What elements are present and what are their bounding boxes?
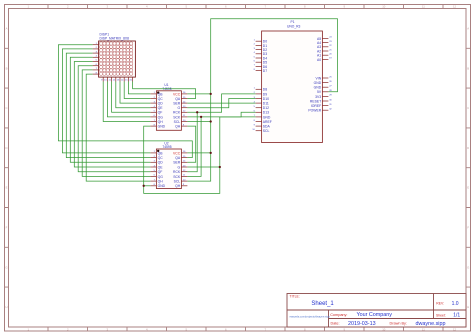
wire DISP1 col4 to U1 QE	[116, 82, 151, 108]
P1 pin 5 stub (D4)	[256, 57, 262, 59]
P1 pin 3 stub (D2)	[256, 49, 262, 51]
svg-text:SCL: SCL	[174, 180, 181, 184]
DISP1 left pin 6 stub	[93, 65, 99, 67]
svg-text:QE: QE	[158, 165, 164, 169]
svg-text:QG: QG	[158, 115, 164, 119]
U2 pin 8 stub (GND)	[150, 185, 156, 187]
U2 pin 3 stub (QD)	[150, 161, 156, 163]
wire U1 VCC to VCC net	[187, 93, 210, 95]
svg-text:D10: D10	[263, 97, 269, 101]
U2 pin 4 stub (QE)	[150, 166, 156, 168]
svg-text:10: 10	[382, 5, 386, 9]
U1 pin 11 stub (SCK)	[181, 116, 187, 118]
P1 pin 26 stub (GND)	[322, 82, 328, 84]
junction GND net at U2 G	[219, 166, 221, 168]
U1 pin 6 stub (QG)	[150, 116, 156, 118]
U1 pin 15 stub (QA)	[181, 98, 187, 100]
svg-text:AREF: AREF	[263, 120, 272, 124]
P1 pin 8 stub (D7)	[256, 70, 262, 72]
shift register U2 74595 body	[156, 149, 181, 189]
svg-text:RESET: RESET	[310, 99, 321, 103]
wire DISP1 col5 to U1 QD	[120, 82, 150, 104]
junction VCC net at U2 VCC	[210, 152, 212, 154]
DISP1 bottom pin 16 stub	[132, 77, 134, 81]
junction RCK net	[196, 111, 198, 113]
U2 pin 6 stub (QG)	[150, 175, 156, 177]
svg-text:2019-03-13: 2019-03-13	[348, 321, 376, 327]
svg-text:QG: QG	[158, 175, 164, 179]
U1 pin 1 marker dot	[157, 92, 159, 94]
svg-text:SDA: SDA	[263, 125, 271, 129]
svg-text:SCL: SCL	[263, 129, 270, 133]
P1 pin 24 stub (A5)	[322, 37, 328, 39]
svg-text:Drawn By:: Drawn By:	[390, 322, 408, 326]
wire SCK net U1 SCK to P1 D13	[187, 112, 255, 117]
svg-text:IOREF: IOREF	[311, 104, 321, 108]
svg-text:1/1: 1/1	[453, 313, 460, 319]
P1 pin 1 stub (D0)	[256, 40, 262, 42]
svg-text:DISP_MATRIX_8X8: DISP_MATRIX_8X8	[100, 36, 130, 40]
svg-text:A: A	[6, 27, 8, 31]
svg-text:GND: GND	[314, 81, 322, 85]
svg-text:74595: 74595	[162, 145, 171, 149]
svg-text:G: G	[178, 165, 181, 169]
P1 pin 6 stub (D13)	[256, 111, 262, 113]
junction VCC net at U1 SCL	[210, 120, 212, 122]
LED matrix DISP1 body	[99, 41, 136, 77]
junction VCC net at U1 VCC	[210, 93, 212, 95]
DISP1 bottom pin 15 stub	[127, 77, 129, 81]
svg-text:A: A	[467, 27, 469, 31]
DISP1 pin numbers	[96, 43, 133, 82]
wire U2 VCC to VCC net	[187, 152, 210, 154]
DISP1 bottom pin 13 stub	[119, 77, 121, 81]
P1 pin 4 stub (D11)	[256, 102, 262, 104]
wire SCK net branch to U2 SCK	[187, 117, 201, 176]
svg-text:D11: D11	[263, 102, 269, 106]
svg-text:VIN: VIN	[316, 76, 322, 80]
DISP1 left pin 2 stub	[93, 48, 99, 50]
U1 pin name and number labels	[154, 92, 186, 128]
P1 pin 5 stub (D12)	[256, 107, 262, 109]
U2 pin 12 stub (RCK)	[181, 171, 187, 173]
P1 pin 28 stub (5V)	[322, 91, 328, 93]
U1 pin 13 stub (G)	[181, 107, 187, 109]
wire U1 SCL to VCC net	[187, 121, 210, 123]
svg-text:D: D	[5, 146, 7, 150]
svg-text:GND: GND	[263, 115, 271, 119]
wire DISP1 row4 to U2 QD	[70, 57, 150, 162]
svg-text:GND: GND	[158, 125, 166, 129]
DISP1 left pin 5 stub	[93, 61, 99, 63]
svg-text:Your Company: Your Company	[357, 312, 393, 318]
svg-text:E: E	[6, 186, 8, 190]
P1 pin 10 stub (SCL)	[256, 130, 262, 132]
wire VCC net: U2 SCL up to 5V loop	[187, 19, 337, 181]
wire U2 GND to GND net	[144, 185, 151, 187]
svg-text:D9: D9	[263, 92, 267, 96]
svg-text:RCK: RCK	[173, 111, 181, 115]
P1 pin 7 stub (D6)	[256, 65, 262, 67]
U2 pin 10 stub (SCL)	[181, 180, 187, 182]
svg-text:3V3: 3V3	[315, 95, 321, 99]
P1 pin 31 stub (IOREF)	[322, 105, 328, 107]
DISP1 bottom pin 9 stub	[102, 77, 104, 81]
svg-text:dwayne.sipp: dwayne.sipp	[416, 321, 446, 327]
svg-text:QE: QE	[158, 106, 164, 110]
P1 pin 27 stub (GND)	[322, 86, 328, 88]
U2 pin 13 stub (G)	[181, 166, 187, 168]
P1 pin 9 stub (SDA)	[256, 125, 262, 127]
wire DISP1 col2 to U1 QG	[107, 82, 150, 117]
wire GND net U1 GND down and to P1 GND	[144, 117, 256, 193]
svg-text:D7: D7	[263, 69, 267, 73]
wire RCK net U1 RCK to P1 D9	[187, 94, 255, 112]
svg-text:A0: A0	[317, 58, 321, 62]
svg-text:12: 12	[453, 5, 457, 9]
svg-text:P1: P1	[291, 20, 295, 24]
junction GND net at U2 GND	[143, 185, 145, 187]
U1 pin 14 stub (SER)	[181, 102, 187, 104]
P1 pin 20 stub (A1)	[322, 54, 328, 56]
wire RCK net branch to U2 RCK	[187, 112, 197, 171]
wire U2 G to GND net	[187, 166, 219, 168]
svg-text:12: 12	[453, 327, 457, 331]
svg-text:QB: QB	[158, 151, 164, 155]
U1 pin 7 stub (QH)	[150, 121, 156, 123]
svg-text:G: G	[5, 265, 7, 269]
P1 pin 19 stub (A0)	[322, 58, 328, 60]
wire DISP1 row2 to U2 QB	[62, 49, 150, 153]
svg-text:C: C	[467, 106, 469, 110]
DISP1 left pin 4 stub	[93, 56, 99, 58]
svg-text:SCK: SCK	[173, 175, 181, 179]
wire DISP1 col7 to U1 QB	[128, 82, 150, 94]
U1 pin 16 stub (VCC)	[181, 93, 187, 95]
svg-text:D12: D12	[263, 106, 269, 110]
U2 pin name and number labels	[154, 151, 186, 188]
wire U1 QH' to U2 SER	[187, 126, 195, 162]
svg-text:10: 10	[382, 327, 386, 331]
svg-text:G: G	[178, 106, 181, 110]
DISP1 bottom pin 14 stub	[123, 77, 125, 81]
P1 pin 21 stub (A2)	[322, 50, 328, 52]
svg-text:H: H	[5, 305, 7, 309]
svg-text:GND: GND	[158, 184, 166, 188]
DISP1 left pin 7 stub	[93, 69, 99, 71]
U1 pin 9 stub (QH)	[181, 125, 187, 127]
wire DISP1 row8 to U2 QH	[86, 74, 150, 181]
svg-text:RCK: RCK	[173, 170, 181, 174]
wire DISP1 row7 to U2 QG	[82, 70, 150, 176]
svg-text:SCL: SCL	[174, 120, 181, 124]
DISP1 left pin 1 stub	[93, 44, 99, 46]
svg-text:QB: QB	[158, 92, 164, 96]
svg-text:Sheet:: Sheet:	[436, 313, 446, 317]
wire DISP1 col6 to U1 QC	[124, 82, 150, 99]
svg-text:D: D	[467, 146, 469, 150]
svg-text:TITLE:: TITLE:	[290, 295, 300, 299]
svg-text:B: B	[6, 66, 8, 70]
svg-text:E: E	[467, 186, 469, 190]
svg-text:Date:: Date:	[331, 322, 340, 326]
svg-text:SER: SER	[173, 161, 181, 165]
P1 pin 22 stub (A3)	[322, 46, 328, 48]
U2 pin 5 stub (QF)	[150, 171, 156, 173]
svg-text:D8: D8	[263, 88, 267, 92]
P1 pin 29 stub (3V3)	[322, 95, 328, 97]
U1 pin 10 stub (SCL)	[181, 121, 187, 123]
P1 pin 2 stub (D9)	[256, 93, 262, 95]
svg-text:POWER: POWER	[308, 109, 321, 113]
U1 pin 8 stub (GND)	[150, 125, 156, 127]
svg-text:REV:: REV:	[436, 302, 444, 306]
P1 pin 8 stub (AREF)	[256, 121, 262, 123]
P1 pin 1 stub (D8)	[256, 88, 262, 90]
wire DISP1 row3 to U2 QC	[66, 53, 150, 158]
U2 pin 15 stub (QA)	[181, 157, 187, 159]
U2 pin 1 marker dot	[157, 150, 159, 152]
svg-text:SER: SER	[173, 102, 181, 106]
DISP1 bottom pin 10 stub	[106, 77, 108, 81]
svg-text:11: 11	[422, 327, 425, 331]
U2 pin 9 stub (QH)	[181, 185, 187, 187]
svg-text:UNO_R3: UNO_R3	[287, 25, 301, 29]
svg-text:D13: D13	[263, 111, 269, 115]
svg-text:QA: QA	[175, 156, 181, 160]
svg-text:SCK: SCK	[173, 115, 181, 119]
svg-text:easyeda.com/projects/dwayne.si: easyeda.com/projects/dwayne.sipp	[290, 314, 331, 318]
svg-text:Sheet_1: Sheet_1	[311, 301, 334, 307]
svg-text:F: F	[467, 226, 469, 230]
svg-text:VCC: VCC	[173, 92, 181, 96]
DISP1 bottom pin 11 stub	[111, 77, 113, 81]
svg-text:H: H	[467, 305, 469, 309]
svg-text:B: B	[467, 66, 469, 70]
svg-text:QF: QF	[158, 170, 163, 174]
wire U1 SER to P1 D11	[187, 102, 255, 104]
svg-text:Company:: Company:	[330, 313, 347, 317]
P1 pin 4 stub (D3)	[256, 53, 262, 55]
U1 pin 4 stub (QE)	[150, 107, 156, 109]
svg-text:11: 11	[422, 5, 425, 9]
svg-text:G: G	[467, 265, 469, 269]
U1 pin 5 stub (QF)	[150, 111, 156, 113]
svg-text:QC: QC	[158, 156, 164, 160]
svg-text:VCC: VCC	[173, 151, 181, 155]
svg-text:F: F	[6, 226, 8, 230]
svg-text:5V: 5V	[317, 90, 322, 94]
wire DISP1 row5 to U2 QE	[74, 62, 150, 168]
U1 pin 1 stub (QB)	[150, 93, 156, 95]
svg-text:C: C	[5, 106, 7, 110]
U1 pin 2 stub (QC)	[150, 98, 156, 100]
wire DISP1 col8 to U1 QA (around top)	[133, 82, 196, 99]
DISP1 bottom pin 12 stub	[115, 77, 117, 81]
U2 pin 11 stub (SCK)	[181, 175, 187, 177]
U2 pin 14 stub (SER)	[181, 161, 187, 163]
svg-text:QD: QD	[158, 102, 164, 106]
wire U1 G to P1 D10	[187, 99, 255, 108]
junction SCK net	[200, 116, 202, 118]
svg-text:GND: GND	[314, 86, 322, 90]
P1 pin 23 stub (A4)	[322, 42, 328, 44]
U1 pin 3 stub (QD)	[150, 102, 156, 104]
P1 pin 30 stub (RESET)	[322, 100, 328, 102]
svg-text:QH: QH	[158, 180, 164, 184]
svg-text:QD: QD	[158, 161, 164, 165]
U2 pin 1 stub (QB)	[150, 152, 156, 154]
DISP1 left pin 8 stub	[93, 73, 99, 75]
title block	[287, 294, 466, 328]
svg-text:QF: QF	[158, 111, 163, 115]
svg-text:QH: QH	[158, 120, 164, 124]
svg-text:QH: QH	[175, 184, 181, 188]
DISP1 left pin 3 stub	[93, 52, 99, 54]
wire DISP1 row1 to U2 QA (around right)	[58, 45, 192, 158]
Arduino header P1 UNO_R3 body	[262, 31, 323, 143]
wire DISP1 col1 to U1 QH	[103, 82, 150, 122]
svg-text:1.0: 1.0	[452, 301, 459, 307]
U2 pin 16 stub (VCC)	[181, 152, 187, 154]
P1 pin 2 stub (D1)	[256, 44, 262, 46]
wire DISP1 row6 to U2 QF	[78, 66, 150, 172]
svg-text:QA: QA	[175, 97, 181, 101]
P1 pin 32 stub (POWER)	[322, 109, 328, 111]
wire DISP1 col3 to U1 QF	[112, 82, 151, 113]
P1 pin 6 stub (D5)	[256, 61, 262, 63]
U2 pin 2 stub (QC)	[150, 157, 156, 159]
svg-text:QC: QC	[158, 97, 164, 101]
shift register U1 74595 body	[156, 91, 181, 131]
P1 pin 3 stub (D10)	[256, 98, 262, 100]
U1 pin 12 stub (RCK)	[181, 111, 187, 113]
U2 pin 7 stub (QH)	[150, 180, 156, 182]
P1 pin 25 stub (VIN)	[322, 77, 328, 79]
P1 pin 7 stub (GND)	[256, 116, 262, 118]
svg-text:QH: QH	[175, 125, 181, 129]
P1 pin name and number labels	[252, 37, 332, 133]
